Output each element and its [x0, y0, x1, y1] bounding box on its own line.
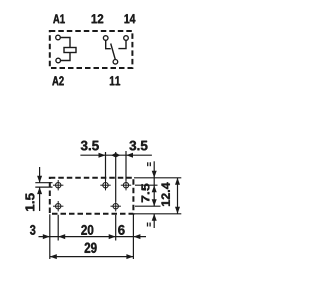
hole 11	[111, 201, 121, 211]
pin label A1	[53, 14, 65, 23]
terminal 11	[113, 60, 118, 65]
dim text 29	[85, 243, 97, 253]
arrow at outline right	[133, 234, 140, 239]
extension centerline pin 11	[115, 152, 117, 201]
wire coil to A2	[61, 53, 70, 61]
wire fixed contact 12	[106, 40, 111, 48]
arrow 29 left	[50, 254, 57, 259]
double arrow at centerline	[111, 153, 120, 158]
dim line 3-20-6	[39, 236, 147, 238]
terminal 14	[124, 36, 129, 41]
dim line 29	[50, 256, 134, 258]
arrow at pin 11 column	[109, 234, 116, 239]
arrow 29 right	[126, 254, 133, 259]
equal margin arrow bottom	[153, 214, 155, 228]
pin label 12	[92, 14, 104, 23]
dim 12.4 line	[177, 178, 179, 214]
pin label 11	[110, 76, 120, 85]
dim text 3	[30, 225, 35, 235]
dim text 3.5 right	[129, 141, 147, 151]
dim text 12.4	[161, 182, 169, 206]
dim 1.5 extension lines	[35, 183, 52, 187]
extension line hole 14	[125, 151, 127, 181]
terminal A1	[56, 35, 61, 40]
coil	[64, 48, 76, 53]
dim text 1.5	[26, 193, 35, 211]
movable contact blade	[111, 44, 116, 60]
terminal 12	[103, 36, 108, 41]
hole A2	[53, 201, 63, 211]
equal margin mark top	[148, 162, 151, 166]
wire A1 to coil	[61, 38, 71, 48]
hole A1	[53, 180, 63, 190]
arrow at outline left	[43, 234, 50, 239]
dim 1.5 arrow down	[39, 167, 41, 183]
hole 14	[121, 180, 131, 190]
pin label A2	[52, 76, 63, 85]
PCB outline dashed box	[50, 178, 134, 214]
hole 12	[100, 180, 110, 190]
pin label 14	[125, 14, 136, 23]
dim line 3.5 pair	[80, 154, 151, 156]
arrow at hole 14 extension	[126, 153, 133, 158]
dim 1.5 arrow up	[39, 187, 41, 211]
equal margin mark bottom	[148, 223, 151, 227]
wire fixed contact 14	[118, 40, 126, 48]
relay outline dashed box	[50, 31, 133, 68]
dim text 6	[118, 225, 124, 235]
dim text 7.5	[142, 184, 150, 203]
arrow at hole 12 extension	[99, 153, 106, 158]
dim text 3.5 left	[81, 141, 99, 151]
equal margin arrow top + dim 7.5 shaft	[153, 161, 155, 206]
dim text 20	[81, 225, 93, 235]
right extension lines	[134, 178, 181, 214]
terminal A2	[56, 58, 61, 63]
arrow at pin A1 column	[58, 234, 65, 239]
extension line hole 12	[105, 152, 107, 181]
bottom extension lines	[50, 214, 134, 259]
dim 7.5 arrows	[152, 185, 157, 192]
